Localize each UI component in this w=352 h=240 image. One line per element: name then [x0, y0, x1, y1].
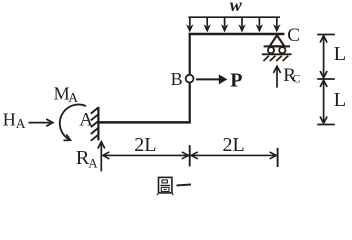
svg-text:w: w: [230, 0, 243, 15]
svg-text:A: A: [16, 116, 26, 131]
label 2L (left): [134, 134, 156, 156]
roller support C: triangle: [270, 35, 285, 46]
label H_A: [3, 109, 26, 131]
L dimension tick bottom: [317, 124, 335, 126]
svg-text:A: A: [68, 90, 78, 105]
label L (upper): [334, 43, 347, 65]
roller support C: upper base line: [264, 45, 290, 47]
svg-text:L: L: [334, 89, 347, 111]
L dimension tick middle: [317, 78, 335, 80]
L dimension arrow (lower): [320, 80, 327, 123]
beam A-corner (bottom member): [99, 121, 191, 124]
roller support C: ground hatching: [263, 56, 288, 61]
label P: [230, 69, 242, 91]
label C: [287, 25, 300, 46]
column (vertical member): [189, 34, 191, 123]
dimension line 2L (left span): [103, 152, 190, 159]
distributed load arrow 5: [256, 17, 263, 32]
dimension line 2L (right span): [190, 152, 277, 159]
moment M_A arc: [60, 104, 86, 140]
beam BC (top member): [189, 33, 285, 36]
svg-text:B: B: [171, 69, 183, 89]
distributed load arrow 2: [204, 17, 211, 32]
svg-text:C: C: [292, 72, 300, 86]
label L (lower): [334, 89, 347, 111]
label M_A: [54, 83, 79, 105]
roller support C: right roller circle: [279, 47, 285, 53]
svg-text:2L: 2L: [223, 134, 245, 156]
L dimension tick top: [317, 34, 335, 36]
svg-text:P: P: [230, 69, 242, 91]
svg-text:A: A: [88, 155, 98, 170]
roller support C: left roller circle: [268, 47, 274, 53]
dimension tick right: [277, 148, 279, 167]
svg-text:H: H: [3, 109, 16, 129]
svg-text:2L: 2L: [134, 134, 156, 156]
hinge B (pin circle): [186, 75, 194, 83]
distributed load arrow 6: [273, 17, 280, 32]
fixed support A: wall line: [97, 107, 99, 140]
svg-text:L: L: [334, 43, 347, 65]
roller support C: lower base line: [262, 53, 292, 55]
label w: [230, 0, 243, 15]
distributed load arrow 3: [221, 17, 228, 32]
dimension tick middle: [189, 145, 191, 166]
L dimension arrow (upper): [320, 36, 327, 78]
fixed support A: wall hatching: [91, 108, 99, 141]
label R_A: [76, 147, 98, 170]
svg-text:C: C: [287, 25, 300, 46]
distributed load arrow 4: [238, 17, 245, 32]
svg-text:A: A: [79, 109, 93, 130]
force H_A arrow: [29, 119, 53, 126]
distributed load w top line: [188, 16, 280, 18]
force P arrow: [196, 74, 227, 84]
label R_C: [283, 65, 300, 86]
reaction R_C arrow: [273, 66, 280, 87]
caption 圖 (drawn glyph): [157, 177, 173, 195]
label B: [171, 69, 183, 89]
caption 一 (drawn glyph): [177, 184, 192, 187]
distributed load arrow 1: [186, 17, 193, 32]
label A: [79, 109, 93, 130]
reaction R_A arrow: [98, 142, 105, 172]
label 2L (right): [223, 134, 245, 156]
